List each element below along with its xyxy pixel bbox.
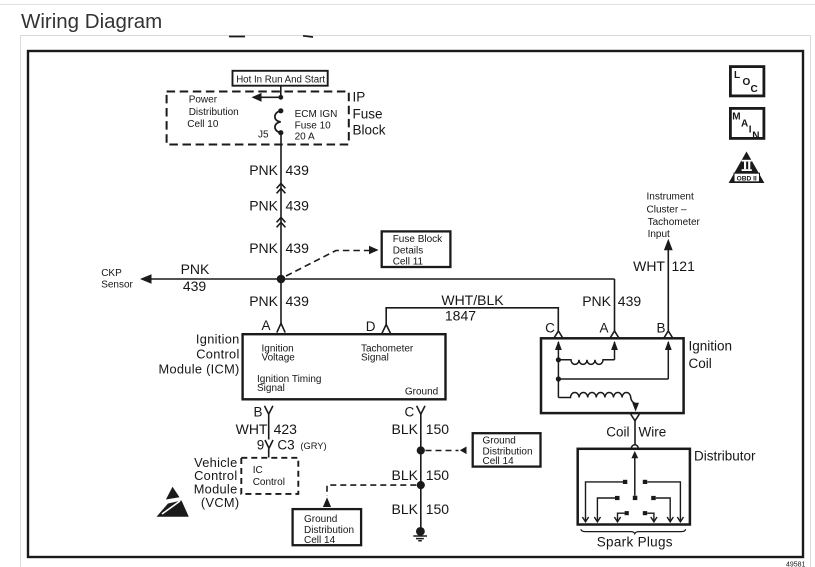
svg-text:49581: 49581: [786, 562, 806, 567]
svg-text:Fuse 10: Fuse 10: [295, 121, 332, 132]
svg-text:9: 9: [257, 438, 265, 453]
svg-text:IC: IC: [253, 465, 263, 476]
svg-text:439: 439: [286, 240, 310, 256]
svg-text:150: 150: [426, 501, 450, 517]
svg-text:Fuse: Fuse: [353, 106, 383, 121]
svg-text:Cell 14: Cell 14: [304, 535, 336, 546]
svg-text:BLK: BLK: [392, 421, 419, 437]
svg-text:Details: Details: [393, 245, 424, 256]
svg-text:C: C: [405, 404, 415, 419]
svg-text:150: 150: [426, 467, 450, 483]
svg-text:439: 439: [618, 293, 642, 309]
svg-text:1847: 1847: [445, 308, 476, 324]
svg-text:PNK: PNK: [249, 293, 278, 309]
svg-text:A: A: [599, 321, 608, 336]
svg-text:Control: Control: [253, 477, 285, 488]
svg-text:ECM IGN: ECM IGN: [295, 109, 338, 120]
svg-text:PNK: PNK: [181, 261, 210, 277]
svg-text:B: B: [253, 404, 262, 419]
svg-text:Fuse Block: Fuse Block: [393, 234, 443, 245]
svg-text:Ignition: Ignition: [689, 339, 733, 354]
svg-text:Wire: Wire: [639, 425, 667, 440]
svg-text:M: M: [732, 112, 740, 123]
svg-text:C3: C3: [277, 438, 294, 453]
svg-text:Tachometer: Tachometer: [648, 217, 701, 228]
svg-text:OBD II: OBD II: [737, 175, 757, 182]
svg-text:IP: IP: [353, 89, 366, 104]
svg-text:D: D: [366, 319, 376, 334]
svg-text:Module (ICM): Module (ICM): [158, 362, 239, 377]
svg-text:Cluster –: Cluster –: [647, 204, 687, 215]
svg-text:Cell 14: Cell 14: [483, 456, 515, 467]
svg-text:Control: Control: [196, 346, 239, 361]
svg-text:Ignition: Ignition: [196, 332, 240, 347]
svg-text:20 A: 20 A: [295, 132, 315, 143]
svg-text:(VCM): (VCM): [201, 495, 239, 510]
svg-text:Voltage: Voltage: [262, 352, 296, 363]
svg-text:Block: Block: [353, 122, 386, 137]
svg-text:PNK: PNK: [582, 293, 611, 309]
svg-text:439: 439: [286, 198, 310, 214]
svg-text:Signal: Signal: [257, 383, 285, 394]
svg-text:C: C: [751, 84, 758, 95]
svg-text:Coil: Coil: [689, 356, 712, 371]
svg-text:Instrument: Instrument: [647, 192, 694, 203]
svg-text:439: 439: [286, 293, 310, 309]
svg-text:(GRY): (GRY): [300, 441, 326, 451]
svg-text:Ground: Ground: [304, 514, 337, 525]
svg-text:I: I: [749, 125, 752, 136]
svg-text:A: A: [741, 119, 748, 130]
svg-text:Coil: Coil: [606, 425, 629, 440]
svg-text:A: A: [261, 318, 270, 333]
svg-text:Power: Power: [189, 95, 218, 106]
svg-text:Cell 10: Cell 10: [187, 119, 219, 130]
svg-text:Input: Input: [648, 229, 670, 240]
svg-text:Ground: Ground: [405, 387, 438, 398]
svg-text:Distributor: Distributor: [694, 449, 756, 464]
svg-text:150: 150: [426, 421, 450, 437]
svg-text:PNK: PNK: [249, 162, 278, 178]
svg-text:L: L: [734, 70, 740, 81]
svg-text:WHT: WHT: [236, 421, 268, 437]
svg-text:J5: J5: [258, 130, 269, 141]
svg-text:Signal: Signal: [361, 352, 389, 363]
svg-text:BLK: BLK: [392, 501, 419, 517]
svg-text:439: 439: [183, 278, 207, 294]
svg-text:PNK: PNK: [249, 198, 278, 214]
svg-text:B: B: [656, 321, 665, 336]
svg-text:N: N: [752, 131, 759, 142]
svg-text:CKP: CKP: [101, 268, 122, 279]
svg-text:PNK: PNK: [249, 240, 278, 256]
svg-text:WHT/BLK: WHT/BLK: [441, 292, 504, 308]
svg-text:Sensor: Sensor: [101, 279, 133, 290]
svg-text:WHT: WHT: [633, 258, 665, 274]
svg-text:C: C: [545, 321, 555, 336]
svg-text:423: 423: [274, 421, 298, 437]
svg-text:Spark Plugs: Spark Plugs: [597, 535, 673, 550]
svg-text:Cell 11: Cell 11: [393, 257, 424, 268]
svg-text:Distribution: Distribution: [189, 107, 239, 118]
svg-text:439: 439: [286, 162, 310, 178]
svg-text:Ground: Ground: [483, 436, 516, 447]
svg-text:Hot In Run And Start: Hot In Run And Start: [236, 74, 325, 85]
svg-text:O: O: [743, 77, 751, 88]
svg-text:121: 121: [672, 258, 696, 274]
svg-text:BLK: BLK: [392, 467, 419, 483]
